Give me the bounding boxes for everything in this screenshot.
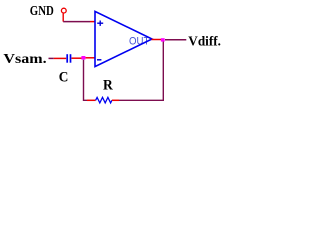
svg-text:R: R (103, 77, 113, 93)
ground terminal (61, 8, 66, 21)
label GND (30, 3, 54, 18)
svg-text:C: C (59, 69, 69, 85)
op-amp + input marker (97, 21, 103, 26)
op-amp U1 triangle (95, 11, 152, 66)
label Vsam. (3, 52, 46, 67)
svg-text:Vdiff.: Vdiff. (188, 34, 221, 49)
label R (103, 77, 113, 93)
resistor R left pin (87, 99, 96, 101)
capacitor C plates (67, 54, 70, 63)
capacitor C right pin (72, 57, 82, 59)
svg-text:Vsam.: Vsam. (3, 52, 46, 67)
resistor R right pin (112, 99, 119, 101)
wire output node to Vdiff (165, 39, 186, 41)
wire junction down to feedback bottom (84, 60, 88, 101)
wire Vsam to capacitor (49, 57, 54, 59)
capacitor C left pin (54, 57, 66, 59)
op-amp label OUT (129, 36, 150, 48)
pin stub + input (90, 21, 95, 23)
op-amp output pin stub (152, 39, 162, 41)
label C (59, 69, 69, 85)
svg-text:GND: GND (30, 3, 54, 18)
junction node at inverting input (81, 56, 85, 60)
pin stub - input (86, 57, 95, 59)
junction node at output (161, 38, 165, 41)
wire GND terminal to op-amp + input (63, 21, 90, 23)
label Vdiff. (188, 34, 221, 49)
op-amp - input marker (97, 59, 101, 61)
resistor R zigzag (96, 97, 112, 103)
wire feedback bottom to output node (119, 40, 163, 100)
